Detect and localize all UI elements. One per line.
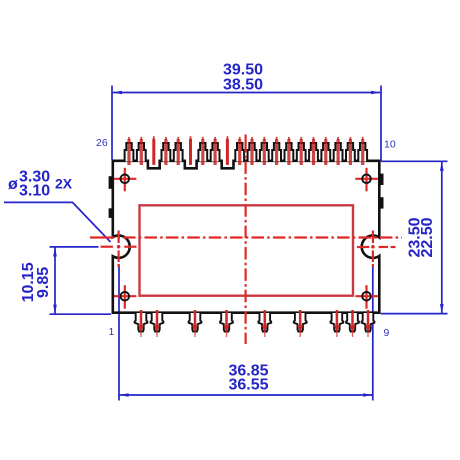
bottom pin 2 lead arrow: [154, 310, 160, 337]
mounting hole crosshair top-left: [114, 168, 137, 192]
top pin hat: [334, 143, 343, 162]
top pin lead: [349, 137, 351, 165]
small bump on left edge lower: [109, 208, 112, 218]
bottom pin 8 lead arrow: [350, 310, 356, 337]
top pin 11: [309, 143, 318, 162]
removed pin position 18 red line: [226, 136, 229, 165]
package body outline with side notches: [113, 161, 380, 313]
top pin 25: [137, 143, 146, 162]
top pin 23: [162, 143, 171, 162]
bottom pin 6: [294, 313, 307, 332]
top pin 15: [260, 143, 269, 162]
top pin lead: [325, 137, 327, 165]
small bump on left edge upper: [109, 176, 112, 189]
top pin 10: [358, 143, 367, 162]
top pin 17 lead: [239, 137, 241, 165]
hole diameter label leader line: [4, 202, 111, 242]
top pin 12 lead: [300, 137, 302, 165]
svg-text:26: 26: [96, 137, 108, 149]
bottom pin 6 lead arrow: [297, 310, 303, 337]
top pin 20: [198, 143, 207, 162]
top pin 19: [211, 143, 220, 162]
top pin 11 lead: [313, 137, 315, 165]
top pin 19 lead: [214, 137, 216, 165]
inner red rectangle (die pad region): [140, 205, 354, 295]
bottom pin 7 lead arrow: [334, 310, 340, 337]
removed pin position 24 red line: [152, 136, 155, 165]
bottom pin 2: [151, 313, 164, 332]
top pin 26: [125, 143, 134, 162]
bottom pin 1 lead arrow: [138, 310, 144, 337]
dimension 39.50/38.50 top: extension lines, dim line, arrows, text: [112, 62, 381, 161]
bottom pin 3: [189, 313, 202, 332]
mounting hole crosshair bottom-right: [355, 285, 378, 309]
top pin 15 lead: [263, 137, 265, 165]
svg-text:38.50: 38.50: [223, 77, 263, 94]
bottom pin 8: [346, 313, 359, 332]
top pin 23 lead: [165, 137, 167, 165]
svg-text:2X: 2X: [55, 175, 73, 191]
top pin 14 lead: [276, 137, 278, 165]
dimension 10.15/9.85 left: extension lines, dim line, arrows, rotated text: [20, 247, 111, 314]
svg-text:9: 9: [384, 327, 390, 339]
top pin 13: [285, 143, 294, 162]
svg-text:36.55: 36.55: [228, 377, 268, 394]
bottom pin 5: [258, 313, 271, 332]
right notch hole center lines: [357, 231, 396, 267]
top pin 16: [248, 143, 257, 162]
bottom pin 4 lead arrow: [224, 310, 230, 337]
top pin 16 lead: [251, 137, 253, 165]
top pin 22: [174, 143, 183, 162]
bottom pin 7: [331, 313, 344, 332]
top pin 20 lead: [202, 137, 204, 165]
hole diameter label text: [8, 168, 73, 199]
vertical center line of package: [245, 135, 247, 345]
top pin 26 lead: [128, 137, 130, 165]
top pin 13 lead: [288, 137, 290, 165]
bottom pin 3 lead arrow: [192, 310, 198, 337]
bottom pin 9 lead arrow: [365, 310, 371, 337]
top pin 25 lead: [140, 137, 142, 165]
bottom pin 1: [135, 313, 148, 332]
horizontal center line of package: [90, 236, 402, 238]
bottom pin 9: [362, 313, 375, 332]
bottom pin 4: [220, 313, 233, 332]
svg-text:10: 10: [384, 139, 396, 151]
top pin 17: [235, 143, 244, 162]
left notch hole center lines: [101, 231, 137, 267]
dimension 36.85/36.55 bottom: extension lines, dim line, arrows, text: [119, 265, 373, 401]
dimension 23.50/22.50 right: extension lines, dim line, arrows, rotated text: [381, 161, 448, 313]
svg-text:22.50: 22.50: [419, 217, 436, 257]
mounting hole crosshair top-right: [355, 168, 378, 192]
removed pin position 21 red line: [189, 136, 192, 165]
top pin 10 lead: [362, 137, 364, 165]
svg-text:ø: ø: [8, 176, 18, 193]
svg-text:9.85: 9.85: [35, 267, 52, 298]
svg-text:3.10: 3.10: [19, 182, 50, 199]
mounting hole crosshair bottom-left: [114, 285, 137, 309]
svg-text:1: 1: [109, 326, 115, 338]
top pin lead: [337, 137, 339, 165]
top pin 12: [297, 143, 306, 162]
small bump on right edge lower: [380, 197, 383, 208]
top pin 14: [272, 143, 281, 162]
small bump on right edge upper: [380, 174, 383, 185]
bottom pin 5 lead arrow: [262, 310, 268, 337]
top pin hat: [321, 143, 330, 162]
top pin 22 lead: [177, 137, 179, 165]
top pin hat: [346, 143, 355, 162]
